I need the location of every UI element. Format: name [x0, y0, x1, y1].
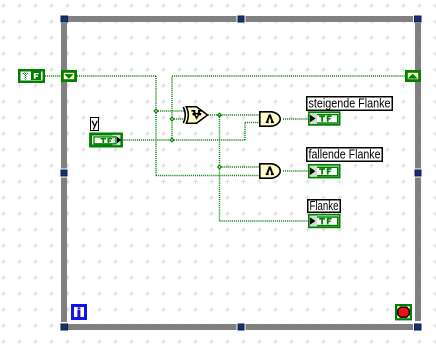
label Flanke [308, 199, 341, 213]
junction: change signal branch at XOR output [217, 112, 222, 117]
wire: control y output run [123, 139, 173, 141]
while loop border [61, 16, 421, 330]
wire: previous value to lower AND bottom input [156, 175, 260, 177]
indicator steigende Flanke [309, 112, 340, 125]
selection handle bottom-left [61, 324, 68, 330]
wire: XOR output [208, 114, 220, 116]
wire: lower AND output to fallende Flanke indicator [283, 170, 308, 172]
svg-text:Flanke: Flanke [310, 199, 339, 213]
selection handle top-mid [237, 16, 246, 22]
XOR gate [183, 107, 207, 123]
right shift register terminal [406, 71, 419, 80]
svg-text:fallende Flanke: fallende Flanke [309, 148, 381, 162]
lower AND gate [260, 164, 280, 178]
upper AND gate [260, 112, 280, 126]
loop condition stop terminal [396, 305, 411, 319]
selection handle top-left [61, 16, 68, 22]
junction: current value branch on control wire [169, 137, 174, 142]
wire: change signal to upper AND top input [220, 114, 260, 116]
wire: previous value vertical drop [155, 76, 157, 176]
svg-text:steigende Flanke: steigende Flanke [309, 97, 391, 111]
wire: upper AND output to steigende Flanke indicator [283, 118, 308, 120]
wire: False constant to left shift register [45, 75, 61, 77]
label steigende Flanke [307, 97, 393, 111]
junction: change signal branch to lower AND [217, 164, 222, 169]
label fallende Flanke [307, 148, 383, 162]
selection handle bottom-mid [237, 324, 246, 330]
wire: current value rising vertical [171, 76, 173, 140]
wire: current value into upper AND bottom input [245, 122, 260, 124]
wire: change signal to Flanke indicator [220, 220, 309, 222]
wire: previous value to XOR top input [156, 110, 184, 112]
selection handle top-right [415, 16, 422, 22]
label y of boolean control [91, 118, 99, 131]
selection handle bottom-right [415, 324, 422, 330]
wire: change signal to lower AND top input [220, 166, 260, 168]
wire: change signal vertical drop [219, 115, 221, 221]
junction: previous value branch [153, 108, 158, 113]
boolean control terminal y [91, 134, 122, 146]
wire: current value to XOR bottom input [172, 118, 184, 120]
wire: current value to right shift register [172, 75, 406, 77]
selection handle right-mid [415, 169, 421, 178]
wire: current value toward upper AND [172, 139, 246, 141]
iteration terminal i [73, 306, 86, 319]
left shift register terminal [62, 71, 75, 80]
indicator fallende Flanke [309, 165, 340, 178]
junction: current value at XOR input branch [169, 116, 174, 121]
selection handle left-mid [61, 169, 67, 178]
boolean constant False [19, 70, 44, 82]
wire: left shift register out, horizontal run [77, 75, 157, 77]
indicator Flanke [309, 215, 340, 228]
wire: current value rise to upper AND [244, 123, 246, 141]
